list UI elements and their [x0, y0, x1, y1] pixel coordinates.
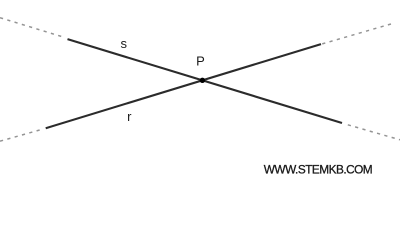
line s dashed extension top-left	[0, 18, 65, 38]
point P dot	[200, 78, 205, 83]
svg-text:WWW.STEMKB.COM: WWW.STEMKB.COM	[264, 163, 372, 177]
line s dashed extension bottom-right	[348, 125, 400, 140]
svg-text:P: P	[196, 54, 205, 69]
svg-text:s: s	[120, 36, 127, 51]
line s solid segment	[68, 39, 343, 123]
line r dashed extension top-right	[322, 23, 395, 44]
line r dashed extension bottom-left	[0, 129, 43, 141]
svg-text:r: r	[127, 109, 132, 124]
line r solid segment	[46, 44, 321, 128]
